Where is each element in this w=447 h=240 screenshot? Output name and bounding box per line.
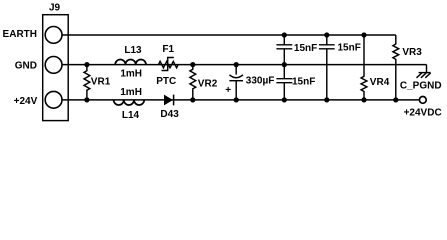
svg-text:VR4: VR4	[370, 77, 390, 88]
svg-text:D43: D43	[160, 109, 179, 120]
svg-text:15nF: 15nF	[338, 43, 361, 54]
svg-text:J9: J9	[49, 3, 61, 14]
svg-text:EARTH: EARTH	[3, 29, 37, 40]
svg-text:15nF: 15nF	[294, 43, 317, 54]
svg-text:VR2: VR2	[198, 78, 218, 89]
svg-text:1mH: 1mH	[120, 87, 142, 98]
svg-text:+24VDC: +24VDC	[404, 108, 442, 119]
svg-text:GND: GND	[15, 61, 37, 72]
svg-text:L14: L14	[122, 110, 140, 121]
svg-text:F1: F1	[162, 44, 174, 55]
svg-text:PTC: PTC	[156, 76, 176, 87]
svg-text:+24V: +24V	[14, 96, 38, 107]
svg-text:L13: L13	[124, 45, 142, 56]
svg-text:330µF: 330µF	[246, 76, 275, 87]
svg-text:C_PGND: C_PGND	[400, 80, 442, 91]
svg-text:VR1: VR1	[91, 77, 111, 88]
svg-text:VR3: VR3	[402, 47, 422, 58]
svg-text:15nF: 15nF	[292, 76, 315, 87]
svg-text:1mH: 1mH	[120, 69, 142, 80]
svg-text:+: +	[225, 85, 231, 96]
